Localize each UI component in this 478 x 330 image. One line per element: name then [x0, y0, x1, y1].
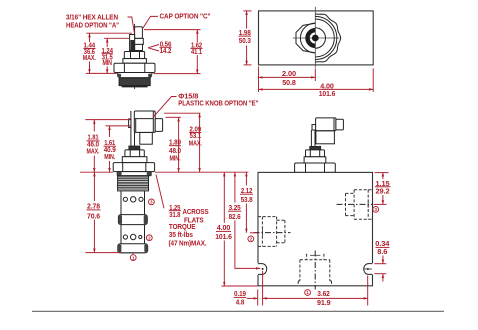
- svg-text:101.6: 101.6: [215, 232, 232, 241]
- svg-text:HEAD OPTION "A": HEAD OPTION "A": [66, 20, 119, 29]
- svg-text:MIN.: MIN.: [170, 153, 181, 162]
- port number 2 manifold: [248, 236, 254, 242]
- stem nub manifold: [312, 125, 316, 130]
- adjust nut small: [124, 52, 144, 59]
- hex nut manifold: [295, 163, 336, 172]
- dark collar: [129, 146, 140, 150]
- stem lines manifold: [310, 130, 312, 147]
- svg-text:2.00: 2.00: [282, 69, 296, 78]
- dimension 0.19 arrow: [247, 297, 258, 299]
- port number 1 below valve: [130, 255, 136, 261]
- ext right hole center down: [367, 276, 369, 306]
- body band dark: [119, 78, 150, 86]
- port cavity 3 dashed: [346, 190, 373, 220]
- svg-text:PLASTIC KNOB OPTION "E": PLASTIC KNOB OPTION "E": [178, 99, 258, 108]
- hex nut facet lines: [123, 63, 125, 72]
- leader hex allen: [128, 17, 135, 33]
- leader knob option E: [153, 97, 177, 118]
- hex nut main: [114, 63, 155, 72]
- svg-text:8.6: 8.6: [377, 247, 387, 256]
- body band bottom: [122, 86, 148, 88]
- flange: [117, 172, 151, 176]
- body tube: [121, 191, 145, 253]
- ext line left edge down: [258, 67, 260, 93]
- cap option C middle block: [135, 38, 144, 44]
- svg-text:53.8: 53.8: [241, 195, 253, 204]
- knob lobed outline right: [315, 14, 340, 62]
- port cavity 1 dashed: [298, 254, 331, 286]
- hex half left: [296, 23, 315, 53]
- ports row 2: [123, 235, 127, 239]
- port number 3 manifold: [373, 207, 379, 213]
- svg-text:MIN: MIN: [102, 58, 112, 67]
- stem nub: [129, 119, 131, 128]
- cavity 2 tick: [261, 229, 263, 236]
- svg-text:3.25: 3.25: [229, 203, 241, 212]
- knob skirt: [140, 133, 153, 145]
- centerline valve stem view: [134, 24, 136, 89]
- port cavity 3 centerline: [337, 203, 373, 205]
- dimension 3.25/82.6 line: [234, 172, 236, 202]
- small hex manifold: [306, 150, 325, 157]
- svg-text:2.78: 2.78: [87, 201, 100, 210]
- dimension 1.98/50.3 ticks: [244, 10, 252, 12]
- svg-text:41.1: 41.1: [191, 47, 202, 56]
- svg-text:31.8: 31.8: [169, 210, 180, 219]
- vertical centerline: [314, 7, 316, 68]
- dark collar manifold: [310, 146, 321, 150]
- o-ring band 1: [118, 215, 147, 225]
- valve knob right cap on block: [336, 119, 344, 130]
- adjust nut facet lines: [130, 52, 132, 59]
- dimension bottom ext line: [86, 72, 117, 74]
- ext tick block top right: [375, 172, 389, 174]
- right mounting hole notch: [371, 263, 374, 275]
- dimension 1.81/46.0 MAX line: [93, 120, 95, 132]
- dimension 2.09/53.1 MAX line: [199, 113, 201, 172]
- pointer 0.56: [148, 45, 159, 48]
- dimension 1.61/40.9 MIN line: [109, 126, 111, 137]
- dark annulus left: [308, 30, 316, 46]
- manifold block outline: [258, 172, 373, 285]
- dimension 1.62 bottom ext: [154, 73, 201, 75]
- knob inner lines: [152, 112, 154, 133]
- svg-text:14.2: 14.2: [160, 46, 172, 55]
- port number 3 on valve: [149, 199, 155, 205]
- port number 1 manifold: [305, 290, 311, 296]
- knob side view right cap: [155, 119, 162, 132]
- dimension 2.78 bottom ext: [85, 252, 120, 254]
- svg-text:70.6: 70.6: [87, 211, 100, 220]
- ext left edge down: [257, 290, 259, 306]
- ext line right edge down: [372, 68, 374, 92]
- svg-text:29.2: 29.2: [376, 186, 390, 195]
- flange shoulder caps: [117, 74, 121, 78]
- dimension 1.44/36.6 MAX ext top: [86, 32, 132, 34]
- dimension 1.89/48.0 MIN line: [178, 117, 180, 172]
- center dot: [312, 35, 319, 42]
- concentric circle left r14.9: [300, 23, 315, 53]
- svg-text:MAX.: MAX.: [87, 146, 100, 155]
- manifold top view outline: [259, 11, 374, 65]
- dimension 1.81/46.0 MAX ext: [85, 119, 130, 121]
- cap option C lower block: [135, 44, 143, 50]
- cap option C upper block: [135, 27, 143, 39]
- left mounting hole notch: [257, 263, 260, 275]
- dimension 1.44/36.6 MAX line: [89, 33, 91, 42]
- ref ext line body top left: [80, 171, 113, 173]
- knob skirt manifold: [316, 131, 335, 144]
- svg-text:ACROSS: ACROSS: [183, 207, 209, 216]
- hole tangent ext lines: [374, 263, 386, 265]
- flange skirt: [117, 73, 153, 78]
- dimension 4.00/101.6 line left: [223, 172, 225, 223]
- horizontal centerline: [293, 37, 340, 39]
- dimension 1.24/31.5 MIN ext top: [104, 37, 129, 39]
- dimension 2.00/50.8 line: [259, 76, 316, 78]
- dimension 2.09/53.1 MAX ext: [164, 112, 201, 114]
- svg-text:4.00: 4.00: [217, 223, 231, 232]
- port cavity 2 centerline: [254, 232, 291, 234]
- dimension 4.00/101.6 line: [259, 88, 374, 90]
- baseline rule: [32, 310, 444, 312]
- hex allen head half-section: [130, 35, 135, 51]
- stem lines: [130, 111, 132, 146]
- dimension 0.34/8.6 arrows: [382, 256, 384, 264]
- svg-text:CAP OPTION "C": CAP OPTION "C": [160, 12, 212, 21]
- hex allen socket dark fill: [130, 40, 134, 51]
- concentric circle right r9.7: [315, 28, 325, 48]
- svg-text:91.9: 91.9: [317, 298, 331, 307]
- dimension 1.89/48.0 MIN ext: [166, 116, 182, 118]
- ext line centerline down: [314, 69, 316, 82]
- port cavity 1 centerline: [314, 251, 316, 290]
- dimension 3.62/91.9 line: [263, 297, 368, 299]
- right hole centerline tick: [364, 268, 372, 270]
- dimension 2.12/53.8 line: [245, 172, 247, 185]
- dimension 1.15/29.2 line: [382, 172, 384, 179]
- svg-text:(47 Nm)MAX.: (47 Nm)MAX.: [169, 238, 207, 247]
- concentric circle right r19.8: [315, 16, 337, 59]
- small hex: [125, 150, 144, 157]
- svg-text:MAX.: MAX.: [189, 139, 202, 148]
- cavity 1 top tick: [310, 254, 320, 256]
- concentric circle right r16.8: [315, 19, 334, 57]
- svg-text:50.8: 50.8: [282, 78, 296, 87]
- svg-text:4.8: 4.8: [236, 297, 245, 306]
- leader torque note: [156, 175, 164, 209]
- dimension 1.61/40.9 MIN ext: [106, 125, 131, 127]
- dimension 1.62/41.1 ext top: [144, 29, 201, 31]
- ref ext line body top right: [155, 171, 249, 173]
- collar band manifold: [304, 157, 326, 163]
- svg-text:MIN.: MIN.: [104, 152, 115, 161]
- o-ring band 2: [118, 244, 148, 253]
- leader cap option C: [143, 16, 158, 28]
- svg-text:101.6: 101.6: [319, 89, 336, 98]
- knob side view body: [134, 111, 155, 132]
- main hex nut: [113, 163, 154, 172]
- threaded section: [118, 176, 149, 191]
- valve knob on block: [316, 118, 336, 131]
- svg-text:MAX.: MAX.: [83, 53, 96, 62]
- dimension 2.78/70.6 line: [93, 172, 95, 201]
- dimension 1.62/41.1 line: [196, 30, 198, 42]
- ext left hole center down: [262, 271, 264, 306]
- cavity 3 tick: [367, 201, 369, 208]
- svg-text:3.62: 3.62: [317, 289, 330, 298]
- collar band: [122, 157, 147, 163]
- bottom centerline tick: [132, 253, 134, 255]
- svg-text:82.6: 82.6: [229, 212, 241, 221]
- dimension 1.24/31.5 MIN line: [106, 38, 108, 47]
- ext block bottom left: [222, 285, 258, 287]
- dimension 1.98/50.3 line: [246, 11, 248, 29]
- port number 2 on valve: [146, 235, 152, 241]
- ports row 1: [123, 197, 127, 201]
- collar band: [123, 59, 146, 64]
- ext port2 centerline: [250, 232, 258, 234]
- svg-text:2.12: 2.12: [241, 186, 253, 195]
- ext port3 centerline: [374, 203, 387, 205]
- port cavity 2 dashed: [258, 217, 285, 247]
- svg-text:50.3: 50.3: [239, 36, 251, 45]
